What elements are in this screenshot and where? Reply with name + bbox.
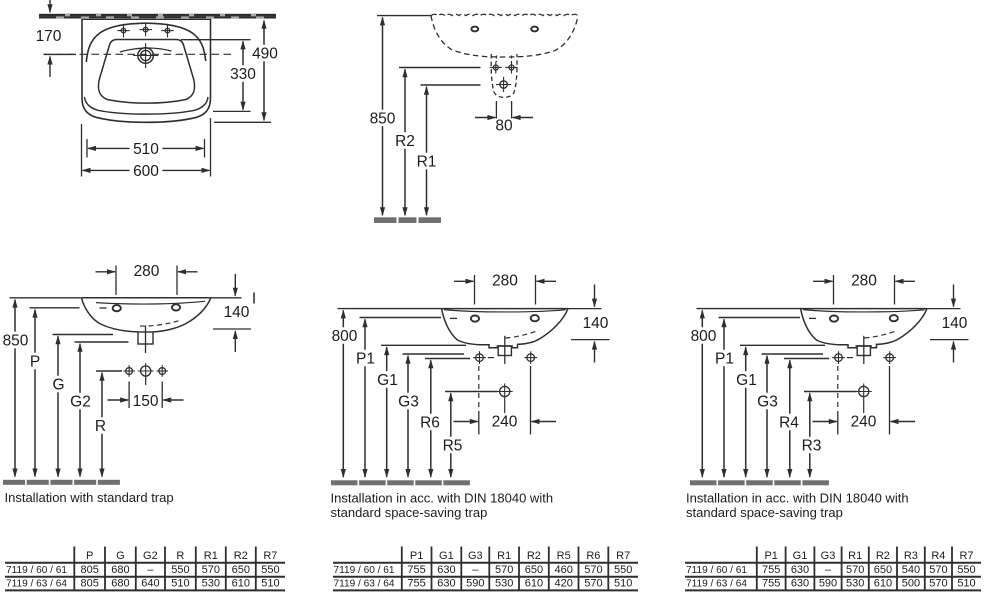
svg-text:570: 570 [929,578,947,590]
svg-text:280: 280 [851,273,877,290]
svg-text:550: 550 [957,564,975,576]
svg-text:R4: R4 [931,550,945,562]
svg-text:800: 800 [332,328,358,345]
svg-text:280: 280 [134,263,160,280]
svg-text:150: 150 [133,393,159,410]
svg-text:R1: R1 [204,550,218,562]
svg-text:–: – [472,564,479,576]
svg-text:755: 755 [762,578,780,590]
svg-text:Installation in acc. with DIN: Installation in acc. with DIN 18040 with [686,491,909,506]
svg-text:460: 460 [555,564,573,576]
svg-text:R1: R1 [848,550,862,562]
svg-text:R5: R5 [557,550,571,562]
svg-text:R: R [176,550,184,562]
svg-text:G: G [52,376,64,393]
svg-text:140: 140 [224,304,250,321]
svg-text:490: 490 [252,45,278,62]
svg-text:550: 550 [171,564,189,576]
svg-text:P1: P1 [410,550,423,562]
svg-text:R7: R7 [263,550,277,562]
svg-text:510: 510 [957,578,975,590]
svg-text:680: 680 [111,578,129,590]
svg-text:I: I [252,291,256,308]
svg-text:610: 610 [525,578,543,590]
svg-text:–: – [825,564,832,576]
svg-text:P: P [30,353,40,370]
svg-text:570: 570 [929,564,947,576]
svg-text:G2: G2 [143,550,158,562]
svg-text:80: 80 [495,117,513,134]
svg-text:G3: G3 [398,393,419,410]
svg-text:805: 805 [81,564,99,576]
svg-text:standard space-saving trap: standard space-saving trap [686,505,843,520]
svg-text:G1: G1 [736,372,757,389]
svg-text:280: 280 [492,273,518,290]
svg-text:P: P [86,550,93,562]
svg-text:510: 510 [171,578,189,590]
svg-text:530: 530 [846,578,864,590]
svg-text:570: 570 [846,564,864,576]
svg-text:550: 550 [261,564,279,576]
svg-text:7119 / 63 / 64: 7119 / 63 / 64 [686,579,747,590]
svg-text:7119 / 63 / 64: 7119 / 63 / 64 [6,579,67,590]
svg-text:630: 630 [791,578,809,590]
svg-text:540: 540 [902,564,920,576]
svg-text:R3: R3 [904,550,918,562]
svg-text:650: 650 [525,564,543,576]
svg-text:G3: G3 [468,550,483,562]
svg-text:510: 510 [614,578,632,590]
svg-text:R4: R4 [779,414,799,431]
svg-text:755: 755 [407,578,425,590]
svg-text:Installation with standard tra: Installation with standard trap [5,490,174,505]
svg-text:Installation in acc. with DIN: Installation in acc. with DIN 18040 with [331,491,554,506]
svg-text:610: 610 [232,578,250,590]
svg-text:330: 330 [230,66,256,83]
svg-text:630: 630 [437,578,455,590]
svg-text:7119 / 60 / 61: 7119 / 60 / 61 [6,565,67,576]
svg-text:G3: G3 [821,550,836,562]
svg-text:G1: G1 [793,550,808,562]
svg-text:7119 / 63 / 64: 7119 / 63 / 64 [334,579,395,590]
svg-text:510: 510 [261,578,279,590]
svg-text:P1: P1 [764,550,777,562]
svg-text:R2: R2 [395,133,415,150]
svg-text:G: G [116,550,125,562]
svg-text:R2: R2 [234,550,248,562]
svg-text:570: 570 [584,564,602,576]
svg-text:805: 805 [81,578,99,590]
svg-text:530: 530 [202,578,220,590]
svg-text:R3: R3 [802,437,822,454]
svg-text:590: 590 [819,578,837,590]
svg-text:G3: G3 [757,393,778,410]
svg-text:630: 630 [791,564,809,576]
svg-text:630: 630 [437,564,455,576]
svg-text:680: 680 [111,564,129,576]
svg-text:420: 420 [555,578,573,590]
svg-text:R2: R2 [527,550,541,562]
svg-text:570: 570 [202,564,220,576]
svg-text:610: 610 [874,578,892,590]
svg-text:R5: R5 [443,437,463,454]
svg-text:850: 850 [3,332,29,349]
svg-text:G2: G2 [70,393,91,410]
svg-text:650: 650 [232,564,250,576]
svg-text:G1: G1 [377,372,398,389]
svg-text:P1: P1 [356,350,375,367]
svg-text:R1: R1 [497,550,511,562]
svg-text:R6: R6 [420,414,440,431]
svg-text:P1: P1 [715,350,734,367]
svg-text:140: 140 [942,315,968,332]
svg-text:140: 140 [583,315,609,332]
svg-text:530: 530 [495,578,513,590]
svg-text:R7: R7 [616,550,630,562]
svg-text:640: 640 [141,578,159,590]
svg-text:650: 650 [874,564,892,576]
svg-text:R2: R2 [876,550,890,562]
svg-text:570: 570 [495,564,513,576]
svg-text:570: 570 [584,578,602,590]
svg-text:510: 510 [133,141,159,158]
svg-text:240: 240 [851,413,877,430]
svg-text:R: R [95,418,106,435]
svg-text:R1: R1 [417,153,437,170]
svg-text:G1: G1 [439,550,454,562]
svg-text:850: 850 [370,110,396,127]
svg-text:R7: R7 [959,550,973,562]
svg-text:240: 240 [492,413,518,430]
svg-text:550: 550 [614,564,632,576]
svg-text:755: 755 [407,564,425,576]
svg-text:590: 590 [466,578,484,590]
svg-text:800: 800 [691,328,717,345]
svg-text:7119 / 60 / 61: 7119 / 60 / 61 [334,565,395,576]
svg-text:500: 500 [902,578,920,590]
svg-text:170: 170 [36,28,62,45]
svg-text:600: 600 [133,163,159,180]
svg-text:–: – [147,564,154,576]
svg-text:R6: R6 [586,550,600,562]
svg-text:755: 755 [762,564,780,576]
svg-text:standard space-saving trap: standard space-saving trap [331,505,488,520]
svg-text:7119 / 60 / 61: 7119 / 60 / 61 [686,565,747,576]
